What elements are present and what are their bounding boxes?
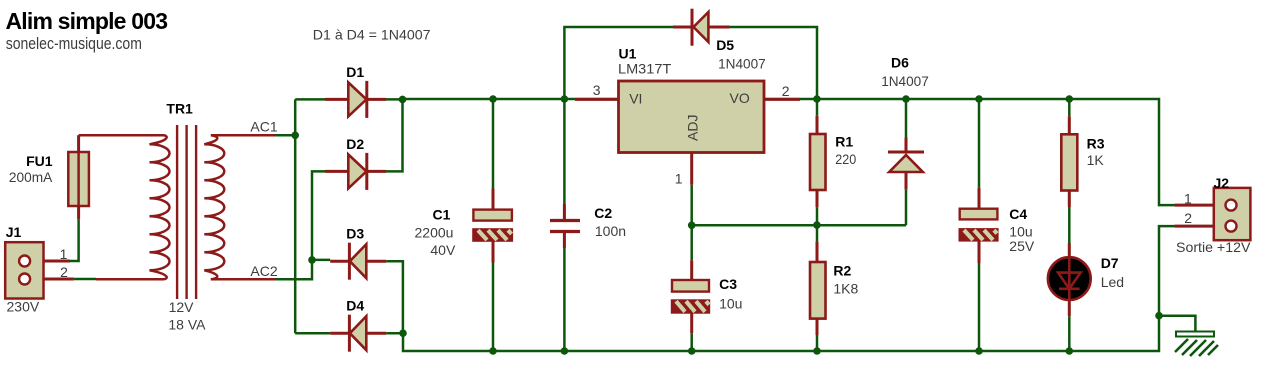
svg-text:1: 1 (1184, 190, 1192, 206)
svg-text:12V: 12V (169, 299, 195, 315)
svg-text:220: 220 (835, 151, 856, 167)
svg-text:D7: D7 (1101, 255, 1119, 271)
svg-text:1N4007: 1N4007 (881, 73, 929, 89)
svg-text:R2: R2 (833, 263, 851, 279)
svg-text:2: 2 (782, 83, 790, 99)
svg-text:100n: 100n (595, 223, 626, 239)
svg-text:1: 1 (60, 246, 68, 262)
svg-text:3: 3 (593, 82, 601, 98)
svg-text:VI: VI (629, 91, 642, 107)
svg-text:C1: C1 (433, 207, 451, 223)
svg-text:D5: D5 (716, 37, 734, 53)
svg-text:VO: VO (730, 90, 750, 106)
svg-text:U1: U1 (619, 46, 637, 62)
svg-text:R1: R1 (835, 133, 853, 149)
svg-text:18 VA: 18 VA (168, 317, 206, 333)
svg-text:C2: C2 (594, 205, 612, 221)
svg-text:R3: R3 (1087, 135, 1105, 151)
svg-text:D6: D6 (891, 54, 909, 70)
svg-text:J1: J1 (6, 224, 22, 240)
svg-text:D2: D2 (346, 136, 364, 152)
svg-text:D4: D4 (346, 298, 364, 314)
svg-text:LM317T: LM317T (618, 60, 672, 76)
svg-text:230V: 230V (7, 298, 40, 314)
svg-text:40V: 40V (430, 242, 456, 258)
svg-text:1: 1 (675, 171, 683, 187)
svg-text:sonelec-musique.com: sonelec-musique.com (6, 34, 142, 53)
svg-text:2200u: 2200u (415, 224, 454, 240)
svg-text:200mA: 200mA (9, 169, 53, 185)
svg-text:D1: D1 (346, 64, 364, 80)
svg-text:Alim simple 003: Alim simple 003 (6, 8, 169, 34)
svg-text:C3: C3 (719, 276, 737, 292)
svg-text:C4: C4 (1009, 206, 1027, 222)
svg-text:D1 à D4 = 1N4007: D1 à D4 = 1N4007 (313, 27, 431, 43)
svg-text:1K: 1K (1087, 152, 1105, 168)
svg-text:Sortie +12V: Sortie +12V (1176, 239, 1251, 255)
svg-text:25V: 25V (1009, 238, 1035, 254)
svg-text:FU1: FU1 (26, 153, 53, 169)
svg-text:1K8: 1K8 (833, 281, 858, 297)
svg-text:1N4007: 1N4007 (718, 55, 766, 71)
svg-text:10u: 10u (719, 295, 742, 311)
svg-text:TR1: TR1 (166, 100, 193, 116)
svg-text:2: 2 (60, 264, 68, 280)
svg-text:2: 2 (1184, 210, 1192, 226)
svg-text:J2: J2 (1214, 175, 1230, 191)
svg-text:AC1: AC1 (250, 119, 277, 135)
svg-text:Led: Led (1101, 274, 1124, 290)
svg-text:D3: D3 (346, 226, 364, 242)
svg-text:AC2: AC2 (250, 263, 277, 279)
svg-text:ADJ: ADJ (685, 115, 701, 141)
